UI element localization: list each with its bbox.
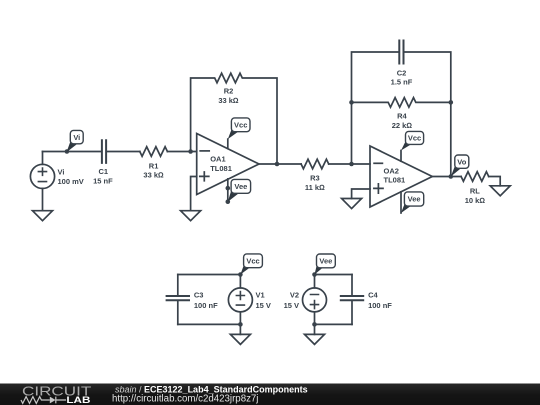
node V2 bottom	[312, 322, 317, 327]
flag Vcc (V1)	[240, 254, 262, 275]
wire C1 to R1	[107, 151, 140, 153]
flag Vee (OA1)	[228, 179, 251, 201]
svg-text:LAB: LAB	[66, 395, 90, 405]
svg-text:Vee: Vee	[234, 182, 247, 191]
svg-text:22 kΩ: 22 kΩ	[392, 121, 413, 130]
svg-text:Vee: Vee	[319, 257, 332, 266]
resistor RL	[461, 172, 489, 182]
svg-text:http://circuitlab.com/c2d423jr: http://circuitlab.com/c2d423jrp8z7j	[112, 394, 258, 405]
svg-text:1.5 nF: 1.5 nF	[391, 78, 413, 87]
svg-text:R1: R1	[149, 162, 159, 171]
wire OA2 + input to ground	[352, 189, 370, 199]
flag Vee (V2)	[315, 254, 336, 275]
voltage source Vi	[30, 152, 54, 211]
ground (OA1 + input)	[181, 211, 201, 221]
svg-text:100 nF: 100 nF	[368, 301, 392, 310]
svg-text:TL081: TL081	[384, 175, 406, 184]
OA1 Vcc pin	[227, 139, 229, 148]
flag Vcc (OA1)	[228, 118, 250, 139]
svg-text:Vcc: Vcc	[246, 256, 259, 265]
capacitor C4	[351, 275, 353, 325]
wire Vi to C1	[43, 151, 102, 153]
svg-text:V2: V2	[290, 291, 299, 300]
svg-text:C2: C2	[397, 69, 407, 78]
svg-text:15 nF: 15 nF	[93, 177, 113, 186]
node R4 left junction	[349, 100, 354, 105]
node OA2 inverting input	[349, 162, 354, 167]
node OA2 output	[449, 174, 454, 179]
wire V2 bottom rail	[315, 312, 353, 335]
capacitor C3	[177, 275, 179, 325]
footer logo resistor-diode glyph	[21, 397, 66, 404]
node dots	[65, 100, 454, 327]
svg-text:R4: R4	[397, 112, 407, 121]
node V1 top	[238, 272, 243, 277]
wire V1 top rail	[178, 275, 241, 288]
svg-text:Vcc: Vcc	[234, 120, 247, 129]
svg-text:Vcc: Vcc	[408, 134, 421, 143]
node OA1 inverting input	[188, 149, 193, 154]
svg-text:Vo: Vo	[457, 157, 466, 166]
svg-text:11 kΩ: 11 kΩ	[305, 183, 325, 192]
svg-text:R3: R3	[310, 174, 320, 183]
ground (V2)	[305, 334, 325, 344]
svg-text:Vi: Vi	[58, 168, 65, 177]
svg-text:10 kΩ: 10 kΩ	[465, 196, 486, 205]
capacitor C2 plates	[399, 40, 403, 65]
node OA1 output	[275, 162, 280, 167]
wire OA1 output to R3	[259, 163, 301, 165]
resistor R2 feedback loop	[191, 73, 277, 164]
flag Vcc (OA2)	[401, 131, 424, 150]
wire R1 to OA1 inverting input	[167, 151, 196, 153]
node V2 top	[312, 272, 317, 277]
node OA1 Vee pin dots	[226, 186, 231, 191]
resistor R4	[352, 98, 451, 108]
resistor R1	[140, 147, 168, 157]
flag Vee (OA2)	[401, 192, 424, 213]
svg-text:Vi: Vi	[73, 133, 80, 142]
node V1 bottom	[238, 322, 243, 327]
ground (below Vi)	[33, 211, 53, 221]
svg-text:OA2: OA2	[384, 167, 399, 176]
svg-text:TL081: TL081	[210, 164, 232, 173]
flag Vo	[451, 155, 469, 177]
resistor R3	[301, 159, 329, 169]
svg-text:RL: RL	[470, 187, 480, 196]
wire OA2 output to RL	[432, 176, 461, 178]
svg-text:C3: C3	[194, 291, 204, 300]
svg-text:V1: V1	[256, 291, 265, 300]
svg-text:15 V: 15 V	[284, 301, 299, 310]
OA1 Vee pin	[227, 179, 229, 202]
ground (OA2 + input)	[342, 199, 362, 209]
svg-text:OA1: OA1	[210, 155, 225, 164]
ground (RL)	[490, 186, 510, 196]
svg-text:33 kΩ: 33 kΩ	[143, 171, 164, 180]
flag Vi	[67, 130, 84, 152]
op-amp OA2	[370, 146, 432, 207]
svg-text:Vee: Vee	[408, 195, 421, 204]
svg-text:15 V: 15 V	[256, 301, 271, 310]
node Vi flag anchor	[65, 149, 70, 154]
voltage source V1	[228, 288, 252, 312]
svg-text:100 nF: 100 nF	[194, 301, 218, 310]
wire RL to ground	[489, 177, 501, 186]
voltage source V2	[303, 288, 327, 312]
wire R3 to OA2 inverting input	[329, 163, 370, 165]
capacitor C1	[102, 139, 106, 164]
svg-text:C4: C4	[368, 291, 378, 300]
OA2 Vee pin	[400, 192, 402, 213]
OA2 Vcc pin	[400, 151, 402, 162]
capacitor C2 feedback loop	[352, 52, 451, 177]
wire OA1 + input to ground	[191, 177, 197, 211]
svg-text:R2: R2	[224, 87, 234, 96]
wire V1 bottom rail	[178, 312, 241, 335]
footer bar	[0, 384, 540, 405]
node R4 right junction	[449, 100, 454, 105]
svg-text:100 mV: 100 mV	[58, 177, 84, 186]
ground (V1)	[230, 334, 250, 344]
svg-text:33 kΩ: 33 kΩ	[218, 96, 239, 105]
wire V2 top rail	[315, 275, 353, 288]
svg-text:C1: C1	[99, 167, 109, 176]
op-amp OA1	[197, 134, 259, 195]
